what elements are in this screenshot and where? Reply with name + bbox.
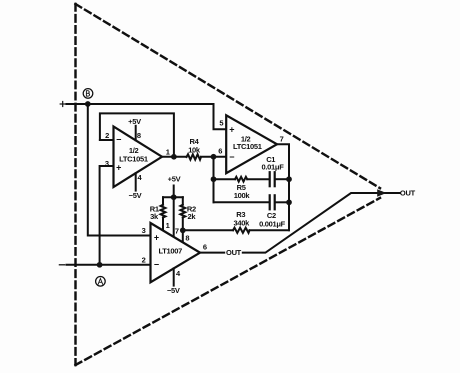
wire: U3 output with inline OUT <box>200 252 224 254</box>
resistor R5 100k <box>235 177 247 182</box>
svg-text:8: 8 <box>185 234 189 243</box>
svg-text:2: 2 <box>142 255 146 264</box>
svg-text:3k: 3k <box>150 212 159 221</box>
wire: node B down to LT1007 pin 3 <box>88 104 151 236</box>
svg-text:−5V: −5V <box>167 286 180 295</box>
composite amplifier dashed triangle top hypotenuse <box>76 4 381 188</box>
svg-text:10k: 10k <box>188 145 201 154</box>
wire: U2 output down the right side <box>277 144 289 230</box>
wire R4 to U2 pin 6 <box>201 156 226 158</box>
svg-text:8: 8 <box>137 131 141 140</box>
capacitor C1 0.01uF <box>270 172 275 186</box>
resistor R3 340k <box>233 228 250 233</box>
wire: C2 branch lower <box>214 201 269 203</box>
svg-text:+: + <box>154 232 159 242</box>
svg-text:−: − <box>229 152 234 162</box>
svg-text:+: + <box>229 124 234 134</box>
junction dot at R5 line <box>211 176 217 182</box>
wire R5 to C1 <box>247 178 269 180</box>
svg-text:1: 1 <box>166 221 170 230</box>
svg-text:340k: 340k <box>234 219 251 228</box>
svg-text:+5V: +5V <box>168 175 181 184</box>
wire C2 to output node <box>276 201 289 203</box>
U1 pin 8 supply stub <box>135 126 137 141</box>
wire: U1 pin 2 stub <box>100 139 114 141</box>
svg-text:−: − <box>116 135 121 145</box>
output arrowhead at apex <box>377 189 386 197</box>
resistor R4 10k <box>187 154 202 159</box>
junction dot +5V rail <box>171 194 177 200</box>
op-amp U3 LT1007 triangle <box>151 223 201 282</box>
composite amplifier dashed triangle left edge <box>74 4 76 365</box>
svg-text:0.001μF: 0.001μF <box>259 219 286 228</box>
composite amplifier dashed triangle bottom hypotenuse <box>76 198 381 365</box>
node A circled label <box>96 277 106 287</box>
svg-text:+: + <box>116 163 121 173</box>
svg-text:LT1007: LT1007 <box>159 247 183 256</box>
junction dot C1 right <box>286 176 292 182</box>
wire C1 to output node <box>276 178 289 180</box>
svg-text:2: 2 <box>105 131 109 140</box>
svg-text:7: 7 <box>280 135 284 144</box>
wire: pin6 node down to feedback lines <box>213 157 215 203</box>
junction dot U1 output/feedback <box>171 154 177 160</box>
op-amp U2 (1/2 LTC1051) triangle <box>226 115 277 173</box>
svg-text:6: 6 <box>218 146 222 155</box>
svg-text:OUT: OUT <box>226 248 242 257</box>
svg-text:100k: 100k <box>234 191 251 200</box>
junction dot C2 right <box>286 199 292 205</box>
node A input wire to LT1007 pin 2 <box>67 264 151 266</box>
svg-text:LTC1051: LTC1051 <box>119 154 148 163</box>
U1 pin 4 supply stub <box>135 173 137 190</box>
svg-text:3: 3 <box>105 159 109 168</box>
wire: R3 line from LT1007 pin8 node <box>183 229 233 231</box>
svg-text:5: 5 <box>219 119 223 128</box>
wire to R5 <box>214 178 236 180</box>
resistor R2 2k <box>180 197 185 242</box>
capacitor C2 0.001uF <box>270 195 275 209</box>
svg-text:7: 7 <box>175 227 179 236</box>
svg-text:LTC1051: LTC1051 <box>233 142 262 151</box>
resistor R1 3k <box>161 197 166 230</box>
svg-text:6: 6 <box>203 242 207 251</box>
node A junction dot <box>97 262 103 268</box>
svg-text:3: 3 <box>142 226 146 235</box>
wire: U1 output to U2 pin 6 <box>162 156 187 158</box>
svg-text:1: 1 <box>166 148 170 157</box>
svg-text:−: − <box>154 260 159 270</box>
junction dot pin8/R3 <box>180 227 186 233</box>
wire: U1 pin 3 to node A <box>100 166 114 265</box>
minus sign at A input <box>59 264 64 266</box>
wire R3 right to output node vertical <box>250 229 290 231</box>
svg-text:OUT: OUT <box>400 189 416 198</box>
node B circled label <box>83 89 93 99</box>
op-amp U1 (1/2 LTC1051) triangle <box>114 127 163 188</box>
U3 pin 4 supply stub <box>173 268 175 285</box>
+5V feed for LT1007 <box>173 186 175 237</box>
node B junction dot <box>85 101 91 107</box>
wire: +input (node B) top rail to pin5 corner <box>67 104 227 129</box>
svg-text:−5V: −5V <box>129 191 142 200</box>
+ sign at B input <box>60 102 65 107</box>
wire after OUT label, diagonal to composite output <box>243 193 400 253</box>
svg-text:2k: 2k <box>188 212 197 221</box>
rail to R1/R2 tops <box>163 196 183 198</box>
svg-text:0.01μF: 0.01μF <box>262 163 285 172</box>
junction dot at pin6 node <box>211 154 217 160</box>
wire: op-amp U1 feedback box output to pin 2 <box>100 113 174 156</box>
svg-text:+5V: +5V <box>128 117 141 126</box>
